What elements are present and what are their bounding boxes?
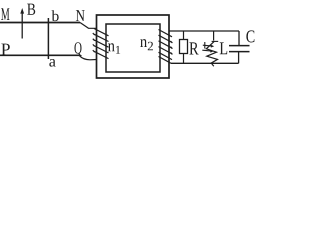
- label L: [220, 42, 228, 54]
- capacitor C top plate: [229, 45, 250, 47]
- photoresistor light arrow 1: [203, 44, 211, 47]
- node M label: [1, 8, 9, 20]
- node N label: [76, 10, 85, 21]
- wire Q to primary coil: [79, 55, 97, 60]
- capacitor C bottom plate: [229, 51, 250, 53]
- photoresistor L zigzag body: [206, 41, 217, 66]
- capacitor C top lead: [238, 31, 240, 46]
- capacitor C bottom lead: [238, 52, 240, 64]
- primary winding n1 turns: [93, 29, 109, 59]
- secondary winding n2 turns: [159, 30, 173, 64]
- wire bottom rail PQ: [0, 54, 79, 56]
- resistor R body: [180, 40, 188, 54]
- label n1: [108, 43, 115, 51]
- photoresistor light arrow 2: [202, 49, 210, 52]
- field arrow B head: [20, 8, 24, 14]
- node b label: [52, 10, 59, 21]
- photoresistor L lead: [213, 31, 215, 41]
- wire secondary bottom: [171, 62, 239, 64]
- wire N to primary coil: [80, 23, 97, 29]
- label B: [27, 4, 35, 15]
- photoresistor L top tick: [212, 40, 219, 42]
- label n2: [140, 39, 147, 47]
- wire secondary top: [169, 30, 239, 32]
- label C: [246, 30, 254, 42]
- label R: [189, 42, 198, 54]
- node P label: [1, 44, 9, 55]
- photoresistor light arrow tail bar: [204, 42, 206, 49]
- transformer inner box (core window): [106, 24, 160, 72]
- field arrow B shaft: [21, 11, 23, 39]
- wire top rail MN: [0, 22, 80, 24]
- transformer outer box: [97, 15, 170, 78]
- node a label: [49, 59, 55, 67]
- node Q label: [74, 42, 81, 56]
- conductor bar ab: [47, 18, 49, 59]
- resistor R leads: [183, 31, 185, 63]
